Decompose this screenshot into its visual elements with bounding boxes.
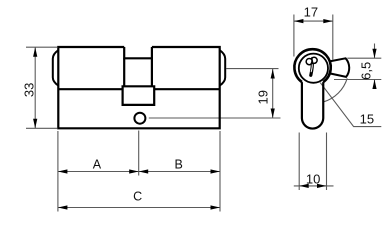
extension line left (A/C) — [57, 131, 59, 212]
dimension 6,5 extension lines — [347, 57, 381, 59]
dimension line A — [58, 171, 139, 173]
svg-text:C: C — [133, 190, 142, 204]
leader from cam tip (19 top) — [226, 68, 278, 70]
barrel bottom line right segment — [154, 88, 220, 90]
arrowheads 17 — [294, 19, 377, 188]
extension line middle (A/B split) — [138, 131, 140, 176]
arrowheads 6,5 — [372, 49, 376, 59]
leader from screw hole (19 bottom) — [149, 117, 281, 119]
arrowheads for B — [139, 169, 149, 173]
cylinder body side view outline — [58, 47, 219, 128]
face outer circle (open at neck) — [294, 49, 330, 82]
cam lug — [330, 58, 350, 77]
extension line right (B/C) — [219, 131, 221, 212]
leader 15 — [320, 83, 381, 127]
svg-text:33: 33 — [21, 83, 36, 97]
cam housing notch — [123, 86, 155, 105]
neck body — [302, 82, 323, 129]
right chamfered end cap — [220, 50, 226, 85]
svg-text:15: 15 — [360, 112, 374, 127]
cylinder side view: swing leaders drawn first — [26, 47, 281, 211]
dimension 17 extension lines — [294, 15, 382, 191]
clutch gap dropped top edge — [124, 47, 152, 58]
clutch gap side walls — [123, 58, 125, 86]
cam swing arc — [324, 78, 348, 102]
svg-text:A: A — [93, 158, 102, 172]
arrowheads for 33 — [33, 47, 275, 209]
left chamfered end cap — [53, 50, 59, 85]
svg-text:10: 10 — [306, 171, 320, 186]
arrowheads for C — [58, 205, 68, 209]
arrowheads for 19 — [271, 69, 275, 79]
dimension line B — [139, 171, 220, 173]
extension line 33 top — [26, 46, 57, 48]
dimension 10 extension lines — [298, 133, 300, 191]
dimension line 33 — [34, 47, 36, 128]
svg-text:17: 17 — [304, 5, 318, 20]
svg-text:6,5: 6,5 — [359, 62, 374, 80]
barrel bottom line left segment — [58, 88, 122, 90]
dimension line 19 — [272, 69, 274, 118]
arrowheads for A — [58, 169, 68, 173]
dimension line 10 — [294, 185, 334, 187]
keyway profile — [306, 57, 317, 75]
dimension line C — [58, 207, 220, 209]
dimension line 17 — [294, 20, 333, 22]
screw hole — [134, 113, 145, 124]
extension line 33 bottom — [26, 127, 57, 129]
arrowheads 10 (inside, pointing outward) — [299, 184, 309, 188]
face inner circle — [299, 54, 328, 83]
svg-text:19: 19 — [256, 90, 271, 104]
dimension line 6,5 (outside arrows) — [374, 44, 376, 59]
svg-text:B: B — [175, 158, 183, 172]
